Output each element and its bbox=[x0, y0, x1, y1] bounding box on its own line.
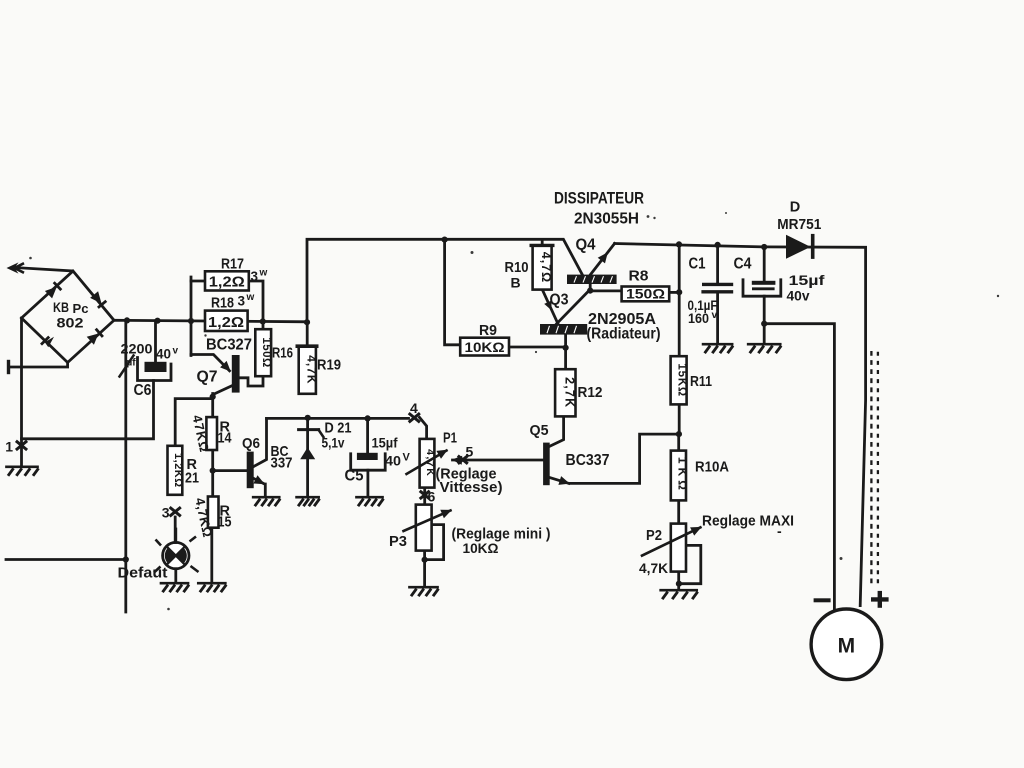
svg-text:5,1v: 5,1v bbox=[322, 435, 345, 451]
svg-text:3: 3 bbox=[162, 505, 170, 521]
svg-text:2,7K: 2,7K bbox=[562, 377, 576, 408]
svg-text:Vittesse): Vittesse) bbox=[440, 480, 503, 496]
svg-text:6: 6 bbox=[428, 489, 436, 505]
svg-text:v: v bbox=[173, 346, 179, 357]
svg-text:R18: R18 bbox=[211, 295, 234, 312]
svg-text:1,2Ω: 1,2Ω bbox=[209, 275, 245, 291]
svg-text:150Ω: 150Ω bbox=[260, 337, 272, 367]
svg-text:V: V bbox=[403, 452, 411, 464]
svg-text:1,2KΩ: 1,2KΩ bbox=[172, 453, 184, 488]
svg-text:Q3: Q3 bbox=[550, 292, 569, 309]
svg-text:w: w bbox=[246, 292, 255, 303]
svg-text:1: 1 bbox=[5, 439, 13, 455]
svg-text:R19: R19 bbox=[317, 357, 341, 374]
svg-text:R8: R8 bbox=[629, 268, 649, 285]
svg-text:R11: R11 bbox=[690, 373, 712, 390]
svg-text:(Radiateur): (Radiateur) bbox=[587, 326, 661, 343]
svg-text:C6: C6 bbox=[134, 382, 152, 399]
svg-text:M: M bbox=[838, 634, 856, 657]
svg-text:150Ω: 150Ω bbox=[626, 287, 665, 302]
svg-text:w: w bbox=[259, 268, 268, 279]
svg-text:40v: 40v bbox=[787, 289, 810, 304]
svg-text:µf: µf bbox=[127, 358, 137, 369]
svg-text:1KΩ: 1KΩ bbox=[675, 457, 689, 494]
svg-text:337: 337 bbox=[271, 455, 293, 472]
svg-text:15µf: 15µf bbox=[372, 436, 398, 451]
svg-text:BC337: BC337 bbox=[566, 452, 610, 469]
svg-text:5: 5 bbox=[466, 444, 474, 460]
svg-text:4: 4 bbox=[410, 400, 418, 416]
svg-text:-: - bbox=[777, 523, 782, 539]
svg-text:R17: R17 bbox=[221, 256, 244, 273]
svg-text:DISSIPATEUR: DISSIPATEUR bbox=[554, 189, 644, 208]
svg-text:Defaut: Defaut bbox=[118, 565, 168, 582]
svg-text:C1: C1 bbox=[689, 256, 706, 273]
svg-text:4,7K: 4,7K bbox=[304, 355, 318, 384]
svg-text:R16: R16 bbox=[272, 345, 293, 362]
svg-text:P2: P2 bbox=[646, 528, 662, 544]
svg-text:15: 15 bbox=[218, 515, 232, 531]
svg-text:B: B bbox=[511, 275, 521, 291]
svg-text:10KΩ: 10KΩ bbox=[465, 340, 505, 355]
svg-text:BC327: BC327 bbox=[206, 337, 252, 354]
svg-text:14: 14 bbox=[218, 431, 232, 447]
svg-text:C4: C4 bbox=[734, 256, 752, 273]
svg-text:KB: KB bbox=[53, 300, 69, 315]
svg-text:R9: R9 bbox=[479, 322, 497, 339]
svg-text:10KΩ: 10KΩ bbox=[463, 540, 499, 556]
svg-text:40: 40 bbox=[156, 347, 171, 362]
svg-text:4,7K: 4,7K bbox=[639, 560, 668, 576]
svg-text:P1: P1 bbox=[443, 431, 457, 447]
svg-text:D: D bbox=[790, 200, 800, 216]
svg-text:R12: R12 bbox=[578, 384, 603, 401]
svg-text:Q7: Q7 bbox=[197, 369, 218, 386]
svg-text:2200: 2200 bbox=[121, 341, 153, 357]
svg-text:4,7Ω: 4,7Ω bbox=[539, 252, 553, 283]
svg-text:R10A: R10A bbox=[695, 460, 729, 476]
svg-text:15KΩ: 15KΩ bbox=[676, 363, 688, 397]
svg-text:2N3055H: 2N3055H bbox=[574, 211, 639, 228]
svg-text:Q4: Q4 bbox=[576, 237, 596, 254]
svg-text:Pc: Pc bbox=[73, 302, 89, 316]
svg-text:Q6: Q6 bbox=[242, 435, 260, 452]
svg-text:1,2Ω: 1,2Ω bbox=[208, 315, 244, 331]
svg-text:21: 21 bbox=[185, 471, 199, 487]
svg-text:Q5: Q5 bbox=[530, 422, 549, 439]
svg-text:160: 160 bbox=[688, 311, 709, 326]
svg-text:3: 3 bbox=[238, 294, 246, 309]
svg-text:C5: C5 bbox=[345, 468, 364, 485]
svg-text:P3: P3 bbox=[389, 534, 407, 550]
svg-text:v: v bbox=[712, 309, 718, 321]
svg-text:MR751: MR751 bbox=[777, 217, 821, 233]
svg-text:4,7K: 4,7K bbox=[424, 449, 436, 477]
svg-text:3: 3 bbox=[251, 269, 259, 284]
svg-text:15µf: 15µf bbox=[789, 273, 826, 288]
svg-text:40: 40 bbox=[385, 453, 401, 469]
svg-text:802: 802 bbox=[57, 316, 84, 331]
